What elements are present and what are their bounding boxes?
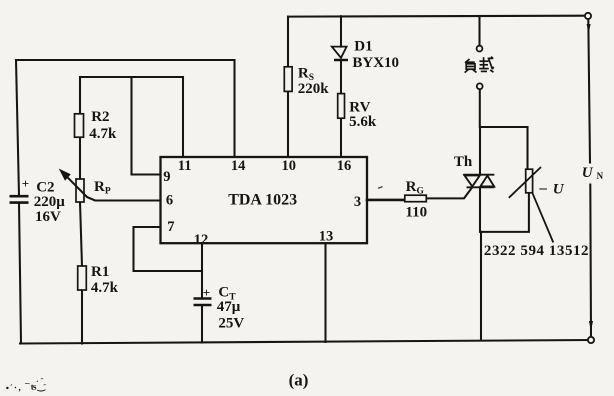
svg-text:16V: 16V: [35, 209, 61, 225]
svg-text:R1: R1: [91, 264, 109, 280]
svg-text:N: N: [597, 171, 604, 181]
svg-text:3: 3: [354, 194, 361, 210]
svg-text:16: 16: [337, 158, 352, 174]
svg-text:TDA 1023: TDA 1023: [228, 192, 297, 209]
svg-text:(a): (a): [289, 371, 309, 390]
svg-text:D1: D1: [354, 39, 372, 55]
svg-text:RV: RV: [349, 99, 370, 115]
svg-text:4.7k: 4.7k: [91, 280, 119, 296]
svg-text:· ˉˍ: · ˉˍ: [36, 377, 46, 386]
svg-text:Th: Th: [454, 154, 473, 170]
svg-text:220μ: 220μ: [34, 194, 66, 210]
svg-text:5.6k: 5.6k: [349, 114, 377, 130]
svg-text:110: 110: [405, 204, 427, 220]
svg-text:220k: 220k: [298, 81, 330, 97]
svg-text:BYX10: BYX10: [352, 55, 399, 71]
svg-text:U: U: [582, 165, 594, 181]
svg-text:10: 10: [282, 158, 297, 174]
svg-text:14: 14: [231, 158, 246, 174]
svg-text:2322 594 13512: 2322 594 13512: [484, 243, 589, 259]
svg-text:25V: 25V: [218, 315, 244, 331]
svg-text:9: 9: [163, 169, 170, 185]
svg-text:13: 13: [319, 229, 334, 245]
svg-text:11: 11: [178, 158, 192, 174]
svg-text:U: U: [553, 181, 565, 197]
svg-text:+: +: [22, 176, 29, 191]
svg-text:47μ: 47μ: [217, 299, 241, 315]
svg-text:7: 7: [167, 219, 174, 235]
svg-text:4.7k: 4.7k: [89, 126, 117, 142]
svg-text:–: –: [538, 181, 547, 197]
svg-text:R2: R2: [91, 109, 109, 125]
svg-text:12: 12: [194, 232, 209, 248]
svg-text:+: +: [203, 285, 210, 300]
svg-text:6: 6: [166, 193, 173, 209]
